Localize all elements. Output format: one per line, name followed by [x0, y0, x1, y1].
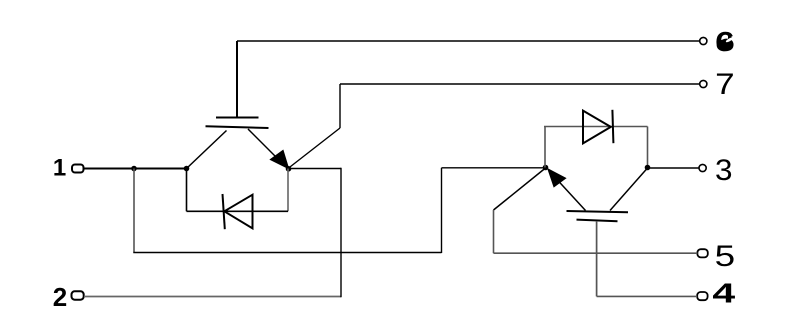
IGBT Q2 collector slant [610, 168, 648, 211]
terminal pin 7 [700, 80, 707, 87]
wire pin7 horizontal [340, 83, 700, 85]
hook terminal of 6 [728, 34, 732, 39]
node F junction [645, 165, 651, 171]
IGBT Q1 emitter arrow [271, 151, 289, 169]
wire to node E [442, 167, 546, 169]
diode D1 right leg [287, 169, 289, 212]
svg-text:2: 2 [53, 282, 67, 312]
wire node E slant down-left [494, 168, 546, 210]
wire pin2 [84, 296, 341, 298]
IGBT Q2 emitter slant [551, 173, 586, 211]
IGBT Q2 body bar [567, 211, 629, 212]
IGBT Q2 gate bar [577, 220, 618, 222]
wire pin4 [597, 295, 698, 297]
terminal pin 4 [697, 292, 707, 300]
svg-text:4: 4 [712, 277, 735, 308]
diode D1 triangle [224, 195, 252, 229]
wire x=340 vertical [339, 84, 341, 128]
diode D2 baseline [544, 126, 648, 128]
IGBT Q1 body bar [206, 126, 269, 128]
svg-text:5: 5 [715, 240, 736, 273]
wire diode D2 down to node F [647, 127, 649, 168]
notch of 6 [725, 37, 733, 43]
diode D1 cathode bar [223, 194, 225, 229]
terminal pin 3 [699, 164, 706, 171]
wire gate Q1 vertical [236, 41, 238, 118]
wire x=493.5 vertical [493, 210, 495, 253]
terminal pin 5 [697, 249, 707, 257]
IGBT Q2 emitter arrow [548, 169, 566, 187]
wire pin5 [494, 252, 698, 254]
wire gate Q2 vertical [596, 221, 598, 296]
diode D1 left leg [186, 169, 188, 212]
wire node F to pin3 [648, 167, 700, 169]
terminal pin 1 [72, 165, 84, 173]
diode D1 baseline [187, 210, 289, 212]
svg-text:1: 1 [53, 155, 66, 182]
svg-text:3: 3 [715, 154, 733, 187]
junction node B [184, 166, 190, 172]
svg-text:7: 7 [715, 68, 735, 101]
wire rising at x=441 [441, 168, 443, 253]
wire bottom bus to right [133, 252, 441, 254]
IGBT Q1 emitter slant [248, 129, 285, 166]
diode D2 triangle [583, 111, 611, 144]
IGBT Q1 gate bar [216, 117, 259, 119]
diode D2 cathode bar [612, 110, 613, 143]
wire x=341 vertical [340, 168, 342, 297]
junction node A [131, 166, 137, 172]
junction emitter node Q1 [286, 166, 292, 172]
IGBT Q1 collector slant [187, 131, 227, 169]
wire slant to emitter node Q1 [288, 128, 340, 169]
wire emitter node to x=341 [288, 168, 341, 170]
wire pin6 to gate Q1 [237, 40, 700, 42]
wire pin1 to node B [84, 168, 187, 170]
node E junction [543, 165, 549, 171]
wire node E up to diode D2 [544, 127, 546, 168]
filled bowl of 6 [717, 40, 731, 52]
wire node A down [133, 169, 135, 253]
terminal pin 2 [72, 291, 84, 299]
terminal pin 6 [700, 37, 707, 44]
